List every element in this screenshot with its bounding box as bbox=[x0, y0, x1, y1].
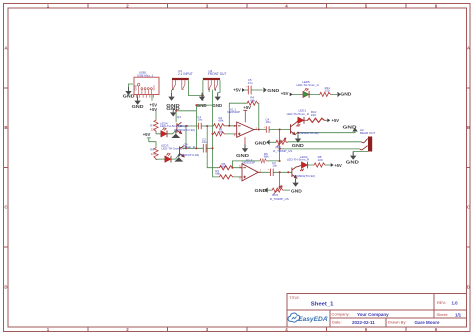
svg-text:TITLE:: TITLE: bbox=[290, 296, 300, 300]
svg-text:GND: GND bbox=[340, 91, 351, 96]
svg-text:2N3904(TO-92): 2N3904(TO-92) bbox=[298, 131, 319, 135]
svg-text:68k: 68k bbox=[264, 154, 269, 158]
svg-text:3: 3 bbox=[234, 135, 236, 137]
svg-text:D: D bbox=[467, 285, 470, 290]
svg-text:2N3904(TO-92): 2N3904(TO-92) bbox=[178, 153, 199, 157]
svg-text:GND: GND bbox=[132, 104, 144, 109]
svg-text:R_TRIMP_US: R_TRIMP_US bbox=[270, 197, 289, 201]
svg-text:68k: 68k bbox=[219, 119, 224, 123]
svg-text:LED-TH-5mm_R: LED-TH-5mm_R bbox=[287, 112, 310, 116]
svg-text:Date:: Date: bbox=[332, 320, 342, 325]
svg-text:+5V: +5V bbox=[281, 91, 289, 96]
svg-text:2N3904(TO-92): 2N3904(TO-92) bbox=[294, 174, 315, 178]
svg-text:220: 220 bbox=[151, 152, 156, 156]
svg-text:GND: GND bbox=[166, 106, 179, 111]
svg-text:Your Company: Your Company bbox=[357, 312, 389, 317]
svg-text:1.0: 1.0 bbox=[452, 300, 459, 305]
svg-text:68k: 68k bbox=[215, 172, 220, 176]
svg-text:Q3: Q3 bbox=[177, 115, 181, 119]
svg-text:220: 220 bbox=[151, 128, 156, 132]
svg-text:GND: GND bbox=[255, 141, 267, 146]
svg-text:220: 220 bbox=[325, 89, 330, 93]
svg-text:10n: 10n bbox=[272, 164, 277, 168]
svg-text:GND: GND bbox=[123, 94, 135, 99]
svg-text:USB-Micr_1: USB-Micr_1 bbox=[137, 73, 154, 77]
svg-text:GND: GND bbox=[343, 125, 357, 130]
svg-text:+: + bbox=[264, 127, 266, 129]
svg-text:+5V: +5V bbox=[143, 132, 151, 137]
svg-text:NE5532P: NE5532P bbox=[227, 110, 240, 114]
svg-text:68k: 68k bbox=[222, 165, 227, 169]
svg-text:+5V: +5V bbox=[334, 163, 342, 168]
svg-text:GND: GND bbox=[134, 85, 138, 91]
svg-text:+: + bbox=[268, 169, 270, 171]
svg-text:10u: 10u bbox=[202, 140, 207, 144]
svg-text:+5V: +5V bbox=[150, 107, 158, 112]
svg-text:GND: GND bbox=[212, 103, 222, 108]
svg-text:GND: GND bbox=[291, 189, 302, 194]
svg-text:Company:: Company: bbox=[332, 312, 350, 317]
svg-text:2.1 INPUT: 2.1 INPUT bbox=[178, 72, 193, 76]
svg-text:220: 220 bbox=[311, 113, 316, 117]
svg-text:EasyEDA: EasyEDA bbox=[298, 316, 328, 323]
svg-text:Drawn By:: Drawn By: bbox=[388, 320, 406, 325]
svg-text:20n: 20n bbox=[266, 120, 271, 124]
svg-text:LED-TH-5mm_R: LED-TH-5mm_R bbox=[160, 124, 183, 128]
svg-text:R_TRIMP_US: R_TRIMP_US bbox=[273, 149, 292, 153]
svg-text:FRONT OUT: FRONT OUT bbox=[208, 72, 227, 76]
svg-text:68k: 68k bbox=[250, 98, 255, 102]
svg-text:VCC: VCC bbox=[152, 85, 156, 91]
svg-text:+5V: +5V bbox=[233, 88, 241, 93]
svg-text:Gare Moore: Gare Moore bbox=[415, 320, 441, 325]
svg-text:GND: GND bbox=[255, 188, 267, 193]
svg-text:B: B bbox=[4, 125, 7, 130]
svg-text:5: 5 bbox=[239, 179, 241, 181]
svg-text:NE5532P: NE5532P bbox=[242, 161, 255, 165]
svg-text:2N3904(TO-92): 2N3904(TO-92) bbox=[174, 128, 195, 132]
svg-text:GND: GND bbox=[292, 143, 304, 148]
svg-text:+5V: +5V bbox=[332, 118, 340, 123]
svg-text:47u: 47u bbox=[248, 81, 253, 85]
svg-text:Sheet_1: Sheet_1 bbox=[311, 301, 334, 307]
svg-text:+: + bbox=[246, 87, 248, 89]
svg-text:GND: GND bbox=[267, 88, 279, 93]
svg-text:GND: GND bbox=[346, 160, 359, 165]
svg-text:220: 220 bbox=[318, 158, 323, 162]
svg-text:+5V: +5V bbox=[243, 105, 251, 110]
svg-text:1/1: 1/1 bbox=[455, 312, 462, 317]
svg-text:2022-02-11: 2022-02-11 bbox=[352, 320, 375, 325]
svg-text:Sheet:: Sheet: bbox=[437, 312, 449, 317]
svg-text:REAR OUT: REAR OUT bbox=[360, 131, 376, 135]
svg-text:B: B bbox=[467, 125, 470, 130]
svg-text:LED-TH-5mm_G: LED-TH-5mm_G bbox=[297, 83, 320, 87]
svg-text:R9: R9 bbox=[150, 148, 154, 152]
svg-text:D: D bbox=[4, 285, 7, 290]
svg-text:GND: GND bbox=[197, 103, 207, 108]
svg-text:Main_R: Main_R bbox=[185, 145, 196, 149]
svg-text:LED-TH-5mm_R: LED-TH-5mm_R bbox=[287, 157, 310, 161]
svg-text:REV:: REV: bbox=[437, 300, 446, 305]
svg-text:LED-TH-5mm_R: LED-TH-5mm_R bbox=[161, 147, 184, 151]
svg-text:10u: 10u bbox=[197, 118, 202, 122]
